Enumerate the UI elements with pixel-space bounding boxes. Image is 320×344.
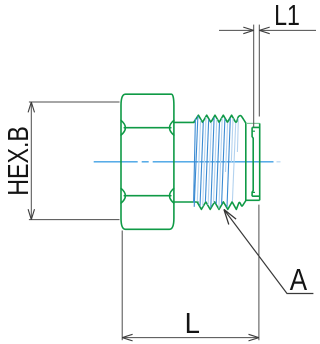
dimension L1 extension line right (258, 25, 260, 117)
HEX.B arrows (28, 102, 34, 220)
HEX.B dimension line (30, 102, 32, 220)
svg-text:HEX.B: HEX.B (1, 126, 34, 196)
HEX.B extension lines (29, 102, 120, 220)
svg-text:A: A (290, 263, 308, 298)
hex facet arc lower-right (170, 188, 174, 203)
nose inner nubs (252, 131, 255, 192)
thread hatch light lines (197, 117, 238, 208)
L1 arrows (243, 27, 269, 34)
hex facet line upper (124, 127, 171, 129)
thread top profile (194, 115, 246, 123)
svg-text:L1: L1 (274, 0, 300, 32)
hex facet arc upper-right (170, 120, 174, 135)
hex facet line lower (124, 195, 171, 197)
hex head body (121, 94, 174, 229)
nose cylinder (246, 123, 260, 201)
hex facet arc upper-left (121, 120, 125, 135)
dimension L extension line right (258, 205, 260, 341)
leader A arrow (224, 209, 236, 224)
centerline (94, 161, 281, 163)
hex facet arc lower-left (121, 188, 125, 203)
nose inner step lines (252, 127, 260, 196)
dimension L1 extension line left (253, 25, 255, 127)
thread bottom profile (197, 201, 246, 210)
thread hatch dark lines (194, 116, 231, 208)
dimension L extension line left (121, 231, 123, 341)
nose inner bore line (252, 127, 253, 196)
dimension L line (122, 337, 259, 339)
L arrows (122, 334, 259, 341)
dimension L1 line (219, 29, 316, 31)
leader A line (224, 209, 314, 293)
svg-text:L: L (185, 307, 200, 340)
neck shank lines (174, 122, 198, 202)
